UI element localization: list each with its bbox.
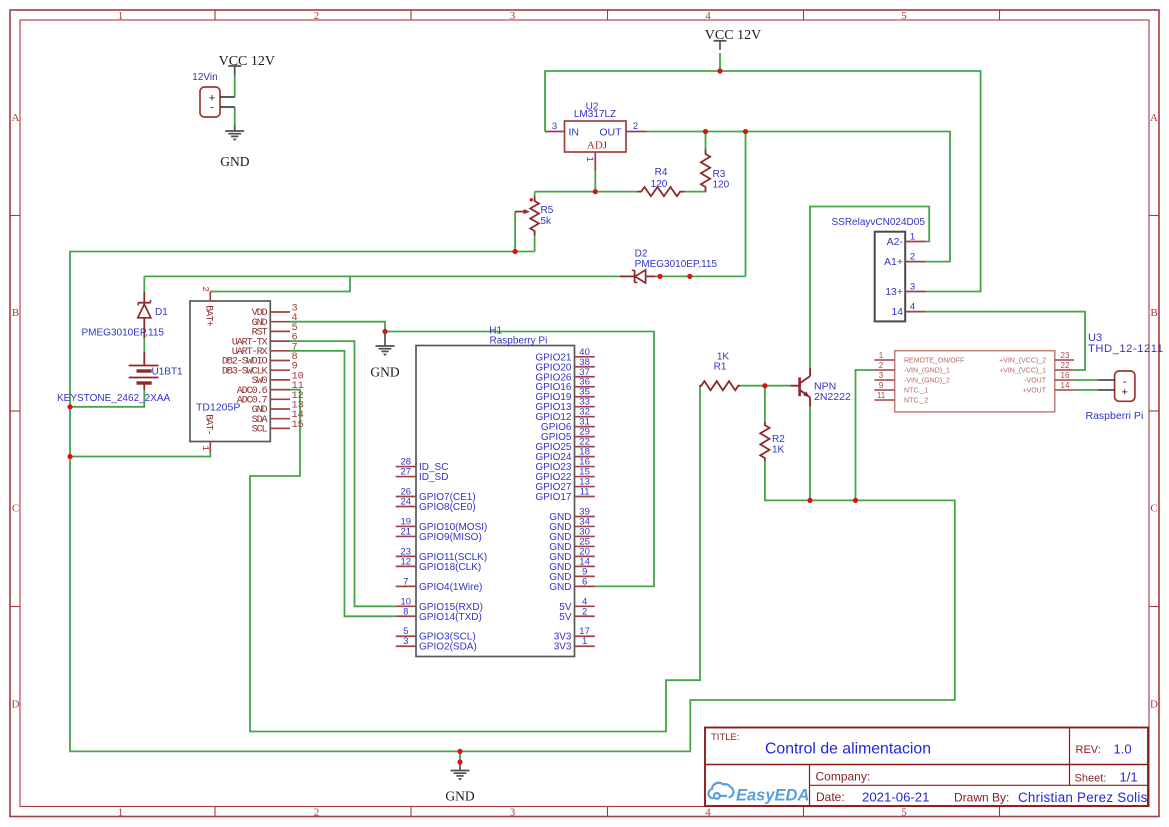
svg-text:GPIO8(CE0): GPIO8(CE0) — [419, 502, 476, 513]
svg-text:2: 2 — [879, 361, 884, 370]
svg-text:Raspberry Pi: Raspberry Pi — [490, 336, 548, 347]
svg-text:8: 8 — [403, 606, 408, 617]
svg-text:BAT-: BAT- — [204, 414, 215, 435]
svg-text:4: 4 — [910, 302, 915, 313]
svg-text:13+: 13+ — [885, 286, 903, 298]
svg-text:KEYSTONE_2462_2XAA: KEYSTONE_2462_2XAA — [57, 393, 171, 404]
svg-text:12: 12 — [401, 556, 412, 567]
svg-text:5k: 5k — [541, 216, 553, 227]
svg-text:3: 3 — [510, 807, 516, 819]
svg-text:1: 1 — [582, 636, 587, 647]
svg-text:SSRelayvCN024D05: SSRelayvCN024D05 — [832, 217, 926, 228]
svg-text:LM317LZ: LM317LZ — [574, 109, 616, 120]
svg-text:Sheet:: Sheet: — [1075, 773, 1107, 785]
svg-text:4: 4 — [705, 807, 711, 819]
svg-text:GPIO14(TXD): GPIO14(TXD) — [419, 612, 482, 623]
svg-text:1: 1 — [879, 351, 884, 360]
svg-text:1: 1 — [118, 10, 124, 22]
svg-text:GND: GND — [370, 364, 399, 379]
svg-text:27: 27 — [401, 467, 412, 478]
svg-text:15: 15 — [292, 419, 304, 431]
svg-text:2: 2 — [200, 286, 211, 292]
svg-text:-: - — [210, 102, 214, 114]
svg-text:BAT+: BAT+ — [204, 305, 215, 326]
svg-text:+VIN_(VCC)_1: +VIN_(VCC)_1 — [999, 368, 1046, 375]
svg-text:REV:: REV: — [1076, 744, 1101, 756]
svg-text:A1+: A1+ — [884, 256, 903, 268]
svg-text:PMEG3010EP,115: PMEG3010EP,115 — [635, 259, 718, 270]
svg-text:3: 3 — [910, 282, 915, 293]
svg-text:22: 22 — [1061, 361, 1070, 370]
svg-text:REMOTE_ON/OFF: REMOTE_ON/OFF — [904, 358, 964, 365]
svg-text:U1BT1: U1BT1 — [152, 367, 184, 378]
svg-text:B: B — [1150, 307, 1157, 319]
svg-text:16: 16 — [1061, 371, 1070, 380]
svg-text:IN: IN — [569, 127, 580, 139]
svg-text:1K: 1K — [772, 445, 785, 456]
svg-text:1/1: 1/1 — [1120, 770, 1138, 785]
svg-text:+: + — [1121, 386, 1127, 398]
svg-text:3: 3 — [403, 636, 408, 647]
svg-text:-VIN_(GND)_1: -VIN_(GND)_1 — [904, 368, 950, 375]
svg-text:-VOUT: -VOUT — [1024, 378, 1047, 385]
svg-text:1.0: 1.0 — [1114, 742, 1132, 757]
svg-text:Control de alimentacion: Control de alimentacion — [765, 741, 931, 758]
svg-text:11: 11 — [580, 487, 590, 498]
svg-text:A: A — [1150, 112, 1158, 124]
svg-text:+VIN_(VCC)_2: +VIN_(VCC)_2 — [999, 358, 1046, 365]
svg-text:5: 5 — [901, 10, 907, 22]
svg-text:+VOUT: +VOUT — [1022, 388, 1046, 395]
svg-text:1: 1 — [584, 157, 595, 162]
svg-text:1: 1 — [910, 232, 915, 243]
svg-text:Date:: Date: — [816, 790, 845, 804]
svg-text:GND: GND — [220, 154, 249, 169]
svg-text:EasyEDA: EasyEDA — [736, 787, 809, 805]
svg-text:6: 6 — [582, 576, 587, 587]
svg-text:1: 1 — [118, 807, 124, 819]
svg-text:120: 120 — [651, 179, 668, 190]
svg-text:A: A — [12, 112, 20, 124]
svg-text:A2-: A2- — [887, 236, 904, 248]
svg-text:VCC 12V: VCC 12V — [219, 54, 275, 69]
svg-text:ID_SD: ID_SD — [419, 472, 448, 483]
svg-text:21: 21 — [401, 526, 412, 537]
svg-text:2N2222: 2N2222 — [814, 391, 851, 403]
svg-text:GPIO2(SDA): GPIO2(SDA) — [419, 642, 477, 653]
svg-text:GPIO17: GPIO17 — [535, 492, 572, 503]
svg-text:3V3: 3V3 — [554, 642, 572, 653]
svg-text:TD1205P: TD1205P — [196, 402, 240, 414]
svg-text:14: 14 — [891, 306, 903, 318]
svg-text:R5: R5 — [541, 205, 554, 216]
svg-text:TITLE:: TITLE: — [711, 732, 740, 743]
svg-text:Company:: Company: — [816, 770, 871, 784]
svg-text:NTC._1: NTC._1 — [904, 388, 928, 395]
svg-text:GND: GND — [549, 582, 571, 593]
svg-text:12Vin: 12Vin — [192, 72, 217, 83]
svg-text:GPIO9(MISO): GPIO9(MISO) — [419, 532, 482, 543]
svg-text:SCL: SCL — [252, 425, 268, 436]
svg-text:GPIO4(1Wire): GPIO4(1Wire) — [419, 582, 482, 593]
svg-text:Raspberri Pi: Raspberri Pi — [1086, 410, 1144, 422]
svg-text:R4: R4 — [655, 167, 668, 178]
svg-text:3: 3 — [879, 371, 884, 380]
svg-text:-VIN_(GND)_2: -VIN_(GND)_2 — [904, 378, 950, 385]
svg-text:R1: R1 — [714, 362, 727, 373]
svg-text:D2: D2 — [635, 249, 648, 260]
svg-text:120: 120 — [713, 180, 730, 191]
svg-text:4: 4 — [705, 10, 711, 22]
svg-text:PMEG3010EP,115: PMEG3010EP,115 — [82, 328, 165, 339]
svg-text:GND: GND — [445, 789, 474, 804]
svg-text:2: 2 — [910, 252, 915, 263]
svg-text:14: 14 — [1061, 381, 1070, 390]
svg-text:Drawn By:: Drawn By: — [954, 791, 1009, 805]
svg-text:2021-06-21: 2021-06-21 — [862, 790, 929, 805]
svg-text:NTC._2: NTC._2 — [904, 398, 928, 405]
svg-text:R2: R2 — [772, 434, 785, 445]
svg-text:D: D — [1150, 699, 1158, 711]
svg-text:D: D — [12, 699, 20, 711]
svg-text:5: 5 — [901, 807, 907, 819]
svg-text:OUT: OUT — [599, 127, 622, 139]
svg-text:11: 11 — [877, 391, 886, 400]
svg-text:2: 2 — [314, 807, 320, 819]
svg-text:B: B — [12, 307, 19, 319]
svg-text:23: 23 — [1061, 351, 1070, 360]
svg-text:C: C — [1150, 503, 1157, 515]
svg-text:THD_12-1211: THD_12-1211 — [1088, 343, 1164, 355]
svg-text:Christian Perez Solis: Christian Perez Solis — [1018, 790, 1148, 805]
svg-text:2: 2 — [314, 10, 320, 22]
svg-text:ADJ: ADJ — [587, 140, 608, 152]
svg-text:7: 7 — [403, 576, 408, 587]
svg-text:3: 3 — [510, 10, 516, 22]
svg-text:3: 3 — [552, 121, 557, 132]
svg-text:R3: R3 — [713, 169, 726, 180]
svg-text:1: 1 — [200, 445, 211, 451]
svg-text:5V: 5V — [559, 612, 572, 623]
svg-text:VCC 12V: VCC 12V — [705, 28, 761, 43]
svg-text:2: 2 — [582, 606, 587, 617]
svg-text:2: 2 — [633, 121, 638, 132]
svg-text:C: C — [12, 503, 19, 515]
svg-text:24: 24 — [401, 497, 412, 508]
svg-text:9: 9 — [879, 381, 884, 390]
svg-text:D1: D1 — [155, 307, 168, 318]
svg-text:GPIO18(CLK): GPIO18(CLK) — [419, 562, 481, 573]
